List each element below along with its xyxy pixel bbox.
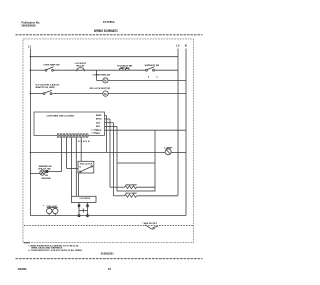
svg-text:5: 5 [157,77,159,79]
svg-text:M: M [104,92,106,96]
svg-text:BROIL ELEMENT: BROIL ELEMENT [126,193,137,195]
dashed chassis line [24,225,193,227]
notes block [24,243,83,253]
relay coil M1 oven relay [93,74,186,83]
wire EOC out dlb [105,123,114,196]
svg-text:BAKE: BAKE [96,114,102,117]
svg-text:TOD CLOCK: TOD CLOCK [80,164,93,166]
svg-text:N: N [79,167,81,169]
wire EOC pin drop 3 [71,137,73,196]
oven element box [117,163,155,191]
header publication text [22,21,41,28]
svg-text:L1 OUT: L1 OUT [92,130,99,132]
wire oven light rung [30,151,186,153]
wire EOC out mdl [105,126,118,163]
EOC bottom pin header P1 [57,134,88,138]
N bus [185,49,187,216]
motor M2 door lock [90,88,111,96]
pin numbers [76,140,90,143]
EOC label [47,115,75,118]
svg-text:FC7T85A: FC7T85A [103,20,115,24]
svg-text:1 2 3 4 5 6: 1 2 3 4 5 6 [76,140,90,143]
svg-text:16: 16 [108,267,111,271]
wire rung 1 [30,69,178,71]
switch S3 door latch [35,84,60,95]
svg-text:RELAY: RELAY [121,67,130,70]
relay contact K1 lockout [75,63,87,71]
wire drop to relay coil [96,70,98,80]
note pointer text [142,223,158,225]
lamp DS1 oven light [164,146,173,154]
svg-text:WIRING SCHEMATIC: WIRING SCHEMATIC [94,29,119,33]
node L1 [28,44,32,48]
svg-text:NOTE:: NOTE: [24,243,31,245]
svg-text:*LT DOOR LATCH: *LT DOOR LATCH [35,84,60,87]
switch S2 surface unit [145,64,160,71]
svg-text:M: M [104,79,106,83]
svg-text:MDL: MDL [96,133,101,135]
svg-text:*: * [43,205,44,208]
footer page number [108,267,111,271]
junction dots L1 [30,56,32,94]
wire EOC out bake [105,116,107,153]
wire EOC out broil [105,119,118,187]
svg-text:* SEE NOTE 1: * SEE NOTE 1 [142,223,158,225]
part number [101,251,115,255]
bus gauge marks [148,76,159,79]
bottom dashed cut line [16,258,203,260]
lamp DS2 oven light pair [43,205,58,216]
header document number [103,20,115,24]
relay contact K2 double broil [117,66,132,71]
wire EOC pin drop 4 [75,137,77,196]
lock switch legs [78,203,89,218]
wire EOC out neutral run [105,130,186,163]
svg-text:N: N [185,44,187,48]
switch S1 oven temp [43,64,60,71]
svg-text:DR LOCK MOTOR: DR LOCK MOTOR [90,88,111,90]
svg-text:SWITCH SW*: SWITCH SW* [35,87,55,89]
lock switch box S5 [72,196,97,202]
svg-text:(PILOT IN): (PILOT IN) [39,168,51,170]
switch S7 door plunger [145,225,158,230]
wire rung 2 [30,93,186,95]
svg-text:OVEN RELAY: OVEN RELAY [93,74,112,77]
EOC control box U1 [34,112,105,136]
svg-text:4: 4 [148,76,150,79]
wire EOC pin drop 1 [61,137,63,171]
L1 bus [29,49,31,216]
svg-text:2. COMPONENTS ETC. IS IN HOT L: 2. COMPONENTS ETC. IS IN HOT LEVEL OF AL… [28,249,82,252]
svg-text:CUSTOMER LINE LOCATED: CUSTOMER LINE LOCATED [47,115,75,118]
wire EOC pin drop 2 [66,137,68,168]
svg-text:LOCK SWITCH: LOCK SWITCH [80,198,91,200]
node L2 [176,44,180,48]
EOC right pin labels [96,114,103,135]
footer date [18,267,27,271]
svg-text:BAKE ELEMENT: BAKE ELEMENT [126,183,137,186]
resistor R1 bake element [117,183,155,188]
schematic frame [23,39,194,243]
warmer switch S4 [30,165,61,180]
junction L1 lamp branch [30,152,32,154]
svg-text:L1 IN: L1 IN [92,132,97,134]
svg-text:BROIL: BROIL [96,119,103,121]
svg-text:316563231: 316563231 [101,251,115,255]
wire top rung [30,56,178,58]
L2 bus [177,49,179,196]
svg-text:5995350639: 5995350639 [22,23,36,27]
wire EOC pin drop 5 [80,137,82,161]
svg-text:09/00: 09/00 [18,267,27,271]
svg-text:900W: 900W [42,178,51,180]
clock module A1 [67,161,94,196]
svg-text:MDL: MDL [96,126,101,128]
wire bottom rung [30,215,186,217]
svg-text:L2: L2 [176,44,180,48]
top dashed cut line [16,34,203,36]
svg-text:DLB: DLB [96,122,101,124]
resistor R2 broil element [114,193,179,197]
svg-text:SURFACE SW: SURFACE SW [145,64,160,67]
EOC pin row labels [92,130,99,135]
title WIRING SCHEMATIC [94,29,119,33]
svg-text:RELAY: RELAY [77,64,86,67]
node N [185,44,187,48]
svg-text:OVEN TEMP SW: OVEN TEMP SW [43,64,60,66]
svg-text:L1: L1 [28,44,32,48]
